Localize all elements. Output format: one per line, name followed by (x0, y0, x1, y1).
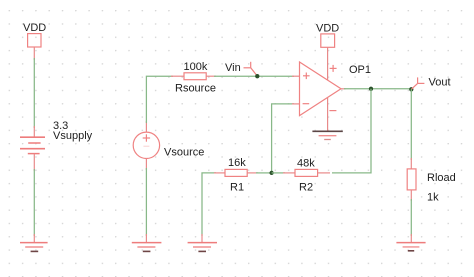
wire op-amp output to Vout (344, 88, 411, 90)
label Vout (411, 77, 450, 90)
battery V1 Vsupply 3.3 (20, 120, 93, 154)
junction node R1-R2 (269, 171, 273, 175)
svg-text:16k: 16k (228, 157, 246, 169)
svg-text:R1: R1 (230, 182, 244, 194)
wire VDD to Vsupply (33, 58, 35, 128)
svg-text:Rsource: Rsource (175, 83, 216, 95)
svg-text:Rload: Rload (427, 172, 456, 184)
wire Vsource up to Rsource (corner) (146, 76, 173, 123)
wire Rload to ground (410, 199, 412, 236)
op-amp output pin stub (341, 88, 346, 90)
resistor R2 48k (283, 158, 330, 194)
svg-text:VDD: VDD (23, 22, 46, 34)
ground (R1) (188, 243, 217, 252)
op-amp + input pin stub (292, 75, 300, 77)
power symbol VDD (op-amp) (316, 23, 339, 48)
op-amp negative supply pin wire (327, 98, 329, 132)
wire Vsupply to ground (33, 169, 35, 236)
wire R1 to junction (256, 172, 272, 174)
power symbol VDD (left) (23, 22, 46, 60)
op-amp U1 OP1 (300, 62, 372, 116)
resistor Rload 1k (407, 169, 456, 204)
ground (Vsource) (132, 243, 162, 252)
svg-text:1k: 1k (427, 192, 439, 204)
resistor Rsource 100k (175, 61, 216, 95)
svg-text:48k: 48k (297, 158, 315, 170)
wire Vsupply top pin (33, 126, 35, 137)
wire junction to R2 (272, 172, 285, 174)
ground (Rload) (396, 243, 425, 251)
wire op-amp - input (corner) (272, 104, 294, 171)
svg-text:VDD: VDD (316, 23, 339, 35)
wire Rsource right pin (206, 75, 216, 77)
svg-text:Vin: Vin (225, 62, 241, 74)
junction node Vout corner (409, 87, 413, 91)
svg-text:100k: 100k (184, 61, 208, 73)
ground (op-amp) (312, 131, 342, 139)
wire Vsupply bottom pin (33, 154, 35, 171)
wire feedback down to R2 (corner) (332, 89, 371, 173)
resistor R1 16k (214, 157, 258, 194)
svg-text:Vsource: Vsource (164, 147, 204, 159)
junction node feedback tap (369, 87, 373, 91)
label Vin (225, 62, 257, 76)
wire R1 left to ground (corner) (202, 173, 216, 236)
ground (Vsupply) (20, 243, 48, 252)
wire Vsource to ground (145, 168, 147, 236)
wire Vout down to Rload (410, 89, 412, 160)
svg-text:R2: R2 (299, 182, 313, 194)
junction node Vin (255, 74, 259, 78)
wire Rload bottom pin (410, 190, 412, 201)
svg-text:Vout: Vout (429, 77, 451, 89)
wire Rsource to op-amp + input (214, 75, 294, 77)
voltage source VG1 Vsource (133, 121, 204, 170)
wire Rsource left pin (171, 75, 184, 77)
op-amp VDD supply pin wire (327, 47, 329, 80)
svg-text:Vsupply: Vsupply (53, 130, 93, 142)
svg-text:OP1: OP1 (349, 64, 371, 76)
op-amp - input pin stub (292, 103, 300, 105)
